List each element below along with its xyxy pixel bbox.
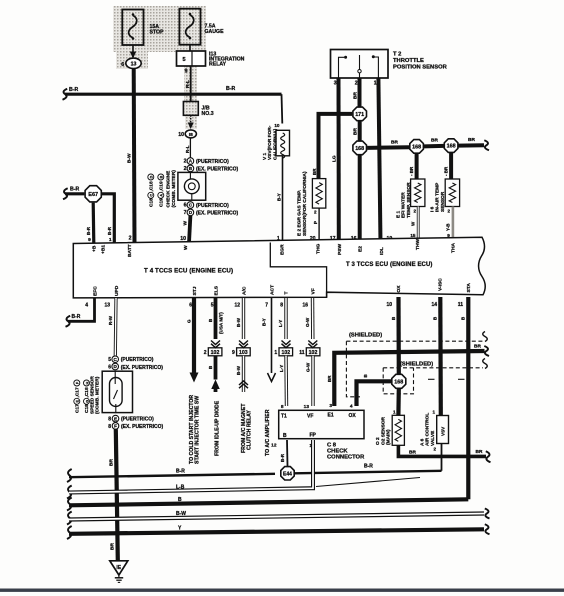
svg-text:B-W: B-W bbox=[236, 365, 241, 375]
svg-text:T 2: T 2 bbox=[393, 52, 401, 58]
O2 sensor main resistor bbox=[392, 415, 404, 445]
svg-text:B-R: B-R bbox=[70, 186, 79, 192]
svg-text:171: 171 bbox=[355, 112, 364, 118]
svg-text:9: 9 bbox=[185, 69, 188, 75]
ECU T4/T3 TCCS outline bbox=[73, 237, 485, 298]
svg-text:THG: THG bbox=[316, 243, 322, 254]
svg-text:13: 13 bbox=[304, 404, 310, 410]
svg-text:B-R: B-R bbox=[226, 86, 235, 92]
svg-text:8: 8 bbox=[280, 303, 283, 309]
svg-text:T: T bbox=[284, 292, 290, 295]
junction connector 168 b bbox=[410, 140, 424, 154]
wire 171 to EGR gas temp sensor bbox=[319, 114, 353, 179]
svg-text:2: 2 bbox=[204, 350, 207, 356]
wire BR O2 sensor to harness bbox=[398, 445, 486, 456]
svg-text:BR: BR bbox=[409, 450, 416, 456]
svg-text:2: 2 bbox=[129, 236, 132, 242]
wire EFC to harness B-R bbox=[68, 298, 95, 321]
svg-text:G-W: G-W bbox=[306, 362, 311, 372]
svg-text:B: B bbox=[160, 175, 164, 178]
svg-text:BR: BR bbox=[431, 138, 438, 144]
svg-text:B-R: B-R bbox=[86, 226, 91, 235]
svg-text:VF: VF bbox=[307, 414, 313, 420]
svg-text:B-Y: B-Y bbox=[276, 193, 281, 201]
wire B-R harness to E44 bbox=[67, 469, 72, 482]
wire Y harness bbox=[67, 526, 72, 539]
svg-text:C17: C17 bbox=[75, 404, 81, 413]
svg-text:BR: BR bbox=[110, 543, 116, 550]
svg-text:OX: OX bbox=[396, 285, 402, 293]
svg-text:C: C bbox=[150, 194, 154, 197]
svg-text:(SHIELDED): (SHIELDED) bbox=[349, 333, 382, 339]
speed sensor (comb. meter) bbox=[102, 371, 132, 412]
svg-text:10: 10 bbox=[178, 132, 184, 138]
wire from A/C magnet clutch relay bbox=[242, 356, 245, 392]
svg-text:1: 1 bbox=[109, 237, 112, 243]
svg-text:9: 9 bbox=[232, 350, 235, 356]
svg-text:O2 SENSOR: O2 SENSOR bbox=[380, 416, 386, 445]
wire J/B to connector I8 bbox=[190, 115, 192, 123]
svg-text:B-R: B-R bbox=[176, 469, 185, 475]
connector 102 b bbox=[279, 348, 293, 356]
svg-text:6: 6 bbox=[108, 365, 111, 371]
svg-text:B-W: B-W bbox=[176, 511, 186, 517]
svg-text:BR: BR bbox=[476, 449, 483, 455]
wire 171 to junction 168 bbox=[358, 121, 362, 140]
svg-text:(EX. PUERTRICO): (EX. PUERTRICO) bbox=[121, 365, 164, 371]
wire TPS pin2 to junction 171 bbox=[358, 78, 362, 107]
wire FP thin continuation bbox=[316, 478, 420, 487]
svg-text:BR: BR bbox=[312, 168, 317, 175]
svg-text:(USA M/T): (USA M/T) bbox=[218, 312, 223, 334]
connector I8 bbox=[185, 130, 196, 138]
svg-text:,C17: ,C17 bbox=[75, 387, 81, 397]
svg-text:B-W: B-W bbox=[236, 317, 241, 327]
wire R-L relay to J/B No.3 bbox=[190, 66, 192, 102]
svg-text:12: 12 bbox=[234, 303, 240, 309]
svg-text:SENSOR: SENSOR bbox=[440, 191, 446, 212]
wire VSV to ECU EGR pin 1 bbox=[282, 156, 284, 243]
svg-text:IN-AIR TEMP: IN-AIR TEMP bbox=[435, 182, 441, 212]
svg-text:C18: C18 bbox=[84, 404, 90, 413]
svg-text:B-W: B-W bbox=[127, 153, 133, 163]
svg-text:VALVE: VALVE bbox=[430, 430, 436, 446]
svg-text:10: 10 bbox=[274, 123, 280, 128]
svg-text:THROTTLE: THROTTLE bbox=[393, 58, 424, 64]
svg-text:(PUERTRICO): (PUERTRICO) bbox=[196, 159, 229, 165]
svg-text:2: 2 bbox=[413, 209, 416, 214]
wire TPS pin1 to ECU IDL bbox=[378, 78, 380, 243]
svg-text:LG: LG bbox=[331, 155, 337, 162]
svg-text:Y-B: Y-B bbox=[445, 223, 450, 231]
svg-text:L-Y: L-Y bbox=[278, 320, 283, 327]
connector 103 bbox=[237, 348, 251, 356]
svg-text:ELS: ELS bbox=[214, 285, 220, 295]
svg-text:8: 8 bbox=[108, 424, 111, 430]
svg-text:8: 8 bbox=[281, 404, 284, 410]
svg-text:IDL: IDL bbox=[379, 247, 385, 255]
svg-text:T 4 TCCS ECU (ENGINE ECU): T 4 TCCS ECU (ENGINE ECU) bbox=[144, 268, 233, 275]
svg-text:TO A/C AMPLIFIER: TO A/C AMPLIFIER bbox=[265, 409, 271, 456]
svg-text:+B1: +B1 bbox=[100, 245, 106, 254]
wire R-L to check engine lamp bbox=[189, 138, 191, 158]
svg-text:102: 102 bbox=[281, 350, 290, 356]
svg-text:VSV: VSV bbox=[441, 426, 446, 436]
junction connector E44 bbox=[281, 467, 294, 480]
svg-text:B-R: B-R bbox=[280, 453, 285, 462]
svg-text:1: 1 bbox=[432, 410, 435, 415]
svg-text:6: 6 bbox=[121, 62, 124, 68]
svg-text:(SHIELDED): (SHIELDED) bbox=[400, 362, 433, 368]
svg-text:IE: IE bbox=[116, 565, 121, 571]
svg-text:V-ISC: V-ISC bbox=[438, 278, 444, 291]
svg-text:EFC: EFC bbox=[93, 286, 99, 296]
svg-text:EGR: EGR bbox=[280, 244, 286, 255]
svg-text:D: D bbox=[150, 175, 154, 178]
ground IE bbox=[110, 561, 128, 575]
svg-text:8: 8 bbox=[108, 416, 111, 422]
svg-text:VF: VF bbox=[311, 288, 317, 294]
stipple background behind fuses bbox=[113, 6, 206, 52]
svg-text:STOP: STOP bbox=[150, 30, 165, 36]
intake air temp sensor I6 bbox=[449, 153, 453, 179]
svg-text:E67: E67 bbox=[88, 192, 98, 198]
VSV V1 (for California) bbox=[281, 94, 284, 123]
svg-text:EFI WATER: EFI WATER bbox=[401, 192, 407, 218]
svg-text:G-W: G-W bbox=[305, 317, 310, 327]
wire B-R into E67 bbox=[63, 188, 68, 199]
svg-text:C19: C19 bbox=[159, 198, 165, 207]
svg-text:6: 6 bbox=[184, 203, 187, 209]
svg-text:GAUGE: GAUGE bbox=[205, 29, 225, 35]
svg-text:R-L: R-L bbox=[185, 80, 191, 88]
svg-text:- BR: - BR bbox=[409, 166, 414, 176]
svg-text:,C19: ,C19 bbox=[159, 181, 165, 191]
svg-text:16: 16 bbox=[302, 303, 308, 309]
wire C8 B pin to E44 bbox=[286, 440, 289, 466]
svg-text:5: 5 bbox=[108, 357, 111, 363]
svg-text:O 2: O 2 bbox=[375, 437, 381, 445]
junction connector 171 bbox=[353, 107, 367, 121]
wire TPS pin3 to ECU PSW bbox=[337, 78, 341, 243]
svg-text:OX: OX bbox=[349, 413, 357, 419]
wire BR junction 168b to 168c bbox=[424, 144, 444, 149]
svg-text:B-R: B-R bbox=[364, 464, 373, 470]
svg-text:4: 4 bbox=[85, 303, 88, 309]
svg-text:2: 2 bbox=[184, 159, 187, 165]
label C18 C19 connector letters bbox=[148, 174, 155, 207]
svg-text:7: 7 bbox=[184, 210, 187, 216]
wire L-B harness to C8 FP bbox=[67, 486, 72, 499]
svg-text:(PUERTRICO): (PUERTRICO) bbox=[121, 357, 154, 363]
svg-text:2: 2 bbox=[314, 210, 317, 215]
ECU internal divider step bbox=[270, 243, 326, 298]
svg-text:14: 14 bbox=[431, 302, 437, 308]
svg-text:CLUTCH RELAY: CLUTCH RELAY bbox=[247, 410, 253, 450]
svg-text:BR: BR bbox=[352, 128, 358, 135]
svg-text:BR: BR bbox=[352, 92, 358, 99]
svg-text:G: G bbox=[85, 400, 89, 403]
junction box J/B No.3 bbox=[183, 102, 198, 116]
wire fuse GAUGE to relay bbox=[189, 45, 191, 51]
wire BR speed sensor to ground bbox=[116, 429, 118, 561]
air control valve A6 bbox=[437, 416, 449, 444]
svg-text:5: 5 bbox=[211, 303, 214, 309]
svg-text:,C18: ,C18 bbox=[84, 387, 90, 397]
wire E67 to ECU +B bbox=[92, 203, 96, 244]
svg-text:3: 3 bbox=[334, 81, 337, 87]
svg-text:2: 2 bbox=[355, 81, 358, 87]
svg-text:NO.3: NO.3 bbox=[202, 111, 214, 117]
svg-text:(COMB. METER): (COMB. METER) bbox=[95, 376, 101, 414]
svg-text:A 6: A 6 bbox=[420, 438, 426, 446]
svg-text:2: 2 bbox=[433, 447, 436, 452]
fuse 7.5A GAUGE bbox=[179, 9, 200, 45]
svg-text:T1: T1 bbox=[281, 414, 287, 420]
svg-text:P: P bbox=[313, 221, 318, 224]
check engine lamp (comb. meter) bbox=[178, 172, 206, 200]
svg-text:7: 7 bbox=[265, 303, 268, 309]
wire B-W fuse STOP down to ECU BATT bbox=[132, 69, 137, 244]
svg-text:2: 2 bbox=[447, 209, 450, 214]
svg-text:V 1: V 1 bbox=[262, 152, 268, 160]
svg-text:STA: STA bbox=[466, 283, 472, 293]
svg-text:- BR: - BR bbox=[444, 166, 449, 176]
svg-text:TEMP. SENSOR: TEMP. SENSOR bbox=[406, 182, 412, 218]
svg-text:W: W bbox=[183, 245, 189, 250]
svg-text:A/C: A/C bbox=[242, 286, 248, 295]
svg-text:AIR CONTROL: AIR CONTROL bbox=[425, 413, 431, 446]
svg-text:CONNECTOR: CONNECTOR bbox=[327, 455, 365, 461]
svg-text:15: 15 bbox=[410, 233, 416, 238]
wire B harness to STA bbox=[67, 498, 72, 511]
svg-text:E 1: E 1 bbox=[396, 210, 402, 218]
svg-text:THW: THW bbox=[415, 238, 421, 250]
throttle position sensor T2 bbox=[331, 50, 389, 79]
svg-text:POSITION SENSOR: POSITION SENSOR bbox=[393, 65, 448, 71]
junction connector E67 bbox=[85, 186, 101, 202]
svg-text:FROM IDLE-UP DIODE: FROM IDLE-UP DIODE bbox=[214, 400, 220, 456]
integration relay I13 bbox=[177, 51, 206, 66]
svg-text:C 8: C 8 bbox=[327, 443, 337, 449]
svg-text:R-L: R-L bbox=[185, 145, 190, 153]
svg-text:H: H bbox=[85, 381, 89, 384]
svg-text:(MAIN): (MAIN) bbox=[386, 429, 392, 445]
svg-text:(COMB. METER): (COMB. METER) bbox=[171, 170, 177, 208]
svg-text:13: 13 bbox=[104, 303, 110, 309]
svg-text:1: 1 bbox=[374, 81, 377, 87]
svg-text:FP: FP bbox=[310, 433, 317, 439]
svg-text:L-Y: L-Y bbox=[279, 365, 284, 372]
svg-text:168: 168 bbox=[355, 146, 364, 152]
svg-text:1: 1 bbox=[393, 410, 396, 415]
svg-text:9: 9 bbox=[88, 237, 91, 243]
svg-text:I 6: I 6 bbox=[430, 206, 436, 212]
wire B-W harness bbox=[67, 512, 72, 525]
svg-text:B-R: B-R bbox=[72, 314, 81, 320]
svg-text:SPEED SENSOR: SPEED SENSOR bbox=[90, 376, 96, 414]
svg-text:168: 168 bbox=[412, 145, 421, 151]
svg-text:BR: BR bbox=[474, 344, 481, 350]
svg-text:11: 11 bbox=[458, 302, 464, 308]
svg-text:5: 5 bbox=[182, 57, 185, 63]
svg-text:1: 1 bbox=[274, 350, 277, 356]
wire BR 168c to harness continuation bbox=[459, 143, 485, 147]
svg-text:E1: E1 bbox=[328, 413, 334, 419]
svg-text:E44: E44 bbox=[283, 471, 292, 477]
svg-text:VSV(FOR FOR-: VSV(FOR FOR- bbox=[267, 125, 273, 160]
svg-text:BR: BR bbox=[327, 375, 332, 382]
svg-text:ACT: ACT bbox=[270, 285, 276, 295]
svg-text:CHECK ENGINE: CHECK ENGINE bbox=[166, 170, 172, 208]
shield dashes on V-ISC and STA wires bbox=[428, 378, 435, 380]
connector 102 c bbox=[306, 348, 320, 356]
wire 168a to ECU E2 bbox=[358, 155, 362, 243]
svg-text:12: 12 bbox=[271, 443, 277, 449]
svg-text:W: W bbox=[183, 221, 189, 226]
svg-text:G: G bbox=[187, 319, 192, 323]
page footer rule bbox=[0, 589, 564, 592]
svg-text:A: A bbox=[160, 194, 164, 197]
svg-text:102: 102 bbox=[211, 350, 220, 356]
svg-text:STJ: STJ bbox=[192, 286, 198, 295]
label C17 C18 connector letters bbox=[74, 380, 81, 413]
connector 102 a bbox=[208, 348, 222, 356]
svg-text:102: 102 bbox=[309, 350, 318, 356]
main wire B-R horizontal rail bbox=[63, 89, 68, 100]
svg-text:START INJECTOR TIME SW: START INJECTOR TIME SW bbox=[195, 396, 201, 464]
svg-text:BR: BR bbox=[109, 459, 115, 466]
svg-text:BATT: BATT bbox=[127, 244, 133, 257]
svg-text:4: 4 bbox=[350, 404, 353, 410]
svg-text:,C18: ,C18 bbox=[149, 181, 155, 191]
svg-text:(EX. PUERTRICO): (EX. PUERTRICO) bbox=[196, 166, 239, 172]
svg-text:W: W bbox=[411, 221, 416, 226]
wire E67 to ECU +B1 bbox=[102, 194, 115, 244]
svg-text:BR: BR bbox=[468, 137, 475, 143]
svg-text:BR: BR bbox=[391, 140, 398, 146]
svg-text:B-R: B-R bbox=[107, 226, 112, 235]
svg-text:THA: THA bbox=[451, 242, 457, 253]
svg-text:UPD: UPD bbox=[114, 285, 120, 296]
EFI water temp sensor E1 bbox=[415, 154, 419, 179]
wire E2 sensor to ECU THG bbox=[318, 208, 320, 243]
check connector C8 bbox=[279, 410, 364, 438]
wire BR junction 168a to 168b bbox=[367, 145, 409, 150]
svg-text:13: 13 bbox=[131, 61, 137, 67]
svg-text:B: B bbox=[178, 497, 182, 503]
junction connector 168 c bbox=[444, 139, 458, 153]
svg-text:I8: I8 bbox=[189, 132, 193, 138]
fuse 15A STOP bbox=[122, 10, 143, 46]
wire W lamp to ECU pin 10 bbox=[189, 216, 190, 244]
svg-text:(PUERTRICO): (PUERTRICO) bbox=[121, 417, 154, 423]
svg-text:SENSOR(FOR CALIFORNIA): SENSOR(FOR CALIFORNIA) bbox=[302, 171, 308, 236]
svg-text:R-W: R-W bbox=[108, 315, 113, 325]
svg-text:+B: +B bbox=[92, 245, 98, 252]
svg-text:E 2 EGR GAS TEMP.: E 2 EGR GAS TEMP. bbox=[297, 190, 303, 236]
svg-text:B-Y: B-Y bbox=[262, 318, 267, 326]
svg-text:B-R: B-R bbox=[69, 87, 78, 93]
svg-text:C18: C18 bbox=[149, 198, 155, 207]
svg-text:168: 168 bbox=[394, 379, 403, 385]
wire from idle-up diode bbox=[214, 356, 218, 380]
svg-text:CALIFORNIA): CALIFORNIA) bbox=[272, 128, 278, 160]
svg-text:10: 10 bbox=[386, 302, 392, 308]
svg-text:2: 2 bbox=[184, 166, 187, 172]
svg-text:F: F bbox=[114, 424, 117, 429]
svg-text:L-B: L-B bbox=[176, 485, 185, 491]
svg-text:(EX. PUERTRICO): (EX. PUERTRICO) bbox=[121, 424, 164, 430]
EGR gas temp sensor E2 (for California) bbox=[312, 179, 325, 209]
junction connector 168 d bbox=[392, 374, 406, 388]
svg-text:103: 103 bbox=[239, 350, 248, 356]
svg-text:E: E bbox=[114, 416, 117, 421]
svg-text:RELAY: RELAY bbox=[209, 62, 227, 68]
svg-text:6: 6 bbox=[189, 303, 192, 309]
svg-text:(PUERTRICO): (PUERTRICO) bbox=[196, 203, 229, 209]
svg-text:PSW: PSW bbox=[337, 243, 343, 255]
wire OX C8 to junction 168d bbox=[357, 381, 392, 406]
svg-text:(EX. PUERTRICO): (EX. PUERTRICO) bbox=[196, 210, 239, 216]
svg-text:B: B bbox=[283, 433, 287, 439]
wire fuse STOP to connector 13 bbox=[132, 45, 134, 57]
svg-text:T 3 TCCS ECU (ENGINE ECU): T 3 TCCS ECU (ENGINE ECU) bbox=[346, 262, 433, 268]
wire 168d to O2 sensor bbox=[396, 389, 401, 415]
svg-text:168: 168 bbox=[447, 144, 456, 150]
wire E44 to air control valve bbox=[295, 471, 442, 474]
svg-text:E2: E2 bbox=[358, 246, 364, 252]
wire E1 to ground rail BR bbox=[334, 351, 484, 406]
connector 13 bbox=[126, 58, 141, 68]
junction connector 168 a bbox=[353, 141, 367, 155]
svg-text:11: 11 bbox=[299, 350, 305, 356]
